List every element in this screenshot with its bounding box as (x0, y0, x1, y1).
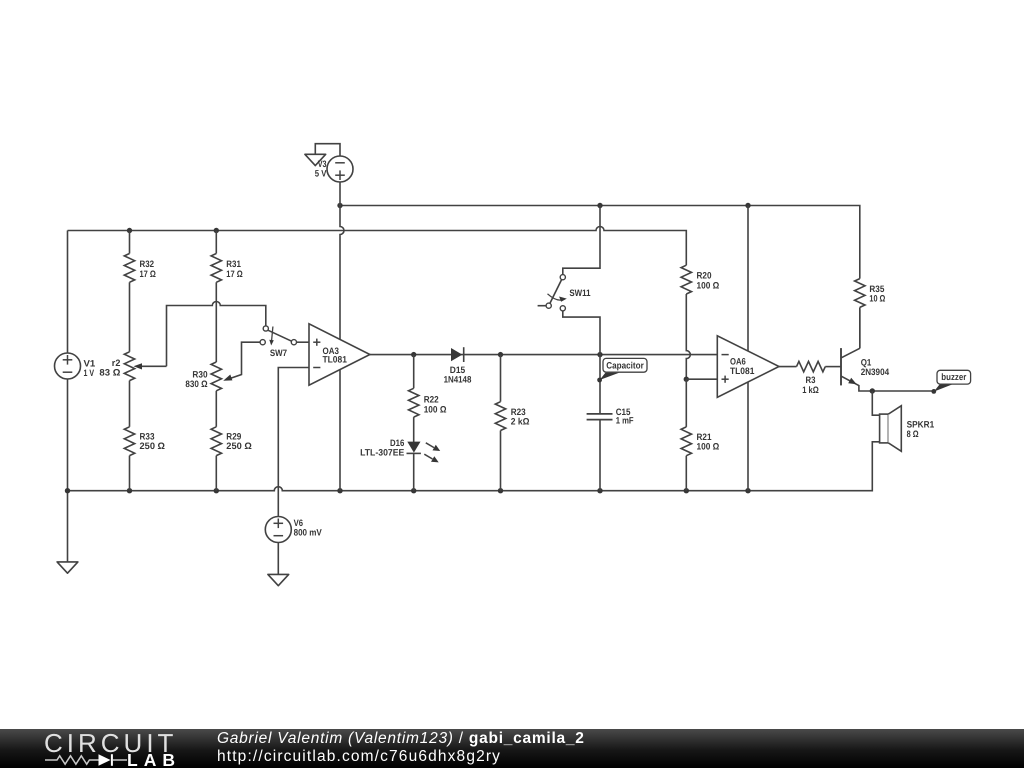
node ground rail/R29 (214, 488, 219, 493)
CircuitLab logo text LAB (127, 750, 181, 768)
svg-text:R20: R20 (697, 271, 712, 281)
wire R30 to R29 (215, 391, 217, 427)
svg-text:100 Ω: 100 Ω (697, 280, 720, 290)
CircuitLab logo resistor-diode symbol (45, 754, 127, 766)
svg-text:R29: R29 (226, 431, 241, 441)
node output/R22 (411, 352, 416, 357)
node ground rail/R21 (684, 488, 689, 493)
node rail/R31 (214, 228, 219, 233)
ground below V6 (268, 574, 289, 585)
label Q1 2N3904 (861, 357, 890, 377)
node ground rail/D16 (411, 488, 416, 493)
resistor R20 (681, 265, 691, 379)
resistor R22 (409, 355, 419, 417)
label OA3 TL081 (323, 346, 347, 365)
svg-text:R33: R33 (140, 431, 155, 441)
svg-text:100 Ω: 100 Ω (424, 404, 447, 414)
svg-text:R21: R21 (697, 432, 712, 442)
potentiometer R30 (rheostat) (211, 362, 221, 391)
label R3 1 kΩ (802, 375, 819, 395)
svg-text:5 V: 5 V (315, 168, 327, 178)
svg-text:V1: V1 (84, 358, 96, 368)
label R22 100 Ω (424, 395, 447, 415)
label R23 2 kΩ (511, 407, 530, 426)
svg-text:800 mV: 800 mV (294, 528, 323, 538)
resistor R31 (211, 231, 221, 283)
ground flag above V3 (305, 144, 340, 166)
label SW7 (270, 348, 287, 358)
svg-text:830 Ω: 830 Ω (185, 379, 208, 389)
label r2 83 Ω (99, 358, 121, 378)
node ground rail/R33 (127, 488, 132, 493)
label R32 17 Ω (140, 259, 157, 279)
wire R32 to r2 (129, 282, 131, 352)
svg-text:TL081: TL081 (730, 366, 754, 376)
footer line 2: url (217, 748, 501, 766)
svg-text:OA6: OA6 (730, 357, 746, 367)
node OA6 + input / R20 / R21 (684, 377, 689, 382)
wire r2 to R33 (129, 381, 131, 427)
wire OA6 output to R3 (779, 366, 797, 368)
label R29 250 Ω (226, 431, 252, 451)
label R21 100 Ω (697, 432, 720, 452)
node ground rail/OA6 V- (745, 488, 750, 493)
svg-text:R30: R30 (192, 369, 207, 379)
wire OA6 V- pin to ground rail (747, 382, 749, 491)
node +5V rail / OA6 V+ branch (745, 203, 750, 208)
label D16 LTL-307EE (360, 438, 404, 457)
resistor R32 (124, 231, 134, 283)
svg-text:SPKR1: SPKR1 (907, 419, 935, 429)
wire OA3 inverting input to V6 (278, 368, 309, 518)
voltage source V3 (327, 156, 353, 206)
svg-text:R35: R35 (869, 284, 884, 294)
wire node to OA6 + input (686, 378, 717, 380)
resistor R33 (124, 427, 134, 491)
LED D16 (407, 417, 441, 491)
label SPKR1 8 Ω (907, 419, 935, 439)
label R30 830 Ω (185, 369, 208, 389)
CircuitLab logo text CIRCUIT (44, 728, 177, 758)
wire r2 wiper to SW7 (hop over R31 column) (167, 302, 266, 367)
label R20 100 Ω (697, 271, 720, 291)
svg-text:17 Ω: 17 Ω (226, 269, 243, 279)
wiper arrow of r2 (134, 363, 167, 369)
svg-text:V3: V3 (318, 159, 327, 169)
wire SW7 common to OA3 + input (297, 341, 310, 343)
resistor R29 (211, 427, 221, 491)
svg-text:1 mF: 1 mF (616, 415, 634, 425)
wire V3 node down to OA3 V+ pin (hop over supply rail) (340, 206, 344, 340)
svg-text:83 Ω: 83 Ω (99, 368, 121, 378)
node output/R23 (498, 352, 503, 357)
node +5V at V3 output (337, 203, 342, 208)
svg-text:10 Ω: 10 Ω (869, 294, 885, 304)
svg-text:1 kΩ: 1 kΩ (802, 385, 819, 395)
node output/C15 branch (597, 352, 602, 357)
switch SW7 (260, 326, 296, 346)
label OA6 TL081 (730, 357, 754, 377)
svg-text:R32: R32 (140, 259, 155, 269)
resistor R21 (681, 379, 691, 491)
label V1 1 V (84, 358, 96, 378)
svg-text:TL081: TL081 (323, 354, 347, 364)
switch SW11 (538, 206, 600, 414)
svg-text:2N3904: 2N3904 (861, 367, 890, 377)
node ground rail/V1 (65, 488, 70, 493)
wire R31 to R30 (215, 282, 217, 362)
op-amp OA6 (717, 336, 779, 398)
label R35 10 Ω (869, 284, 885, 304)
footer line 1: author / title (217, 730, 585, 748)
node emitter / speaker branch (870, 388, 875, 393)
svg-text:100 Ω: 100 Ω (697, 441, 720, 451)
svg-text:SW11: SW11 (569, 288, 590, 298)
resistor R3 (797, 361, 842, 371)
svg-text:250 Ω: 250 Ω (226, 441, 252, 451)
ground below V1 (57, 562, 78, 573)
svg-text:buzzer: buzzer (941, 372, 966, 382)
svg-text:LAB: LAB (127, 750, 181, 768)
resistor R23 (495, 355, 505, 491)
wiper arrow of R30 from SW7 throw (223, 342, 260, 381)
wire OA6 V+ pin from +5V rail (747, 206, 749, 352)
wire ground rail y=490.7 (hop over V6 wire, up to speaker) (68, 442, 880, 491)
node +5V rail / SW11 branch (597, 203, 602, 208)
svg-text:SW7: SW7 (270, 348, 287, 358)
svg-text:LTL-307EE: LTL-307EE (360, 447, 404, 457)
label C15 1 mF (616, 407, 634, 426)
label V6 800 mV (294, 518, 323, 538)
svg-text:Q1: Q1 (861, 357, 872, 367)
speaker SPKR1 (872, 391, 901, 451)
wire +5V rail (V3 node to R35 top) (340, 206, 860, 279)
node ground rail/R23 (498, 488, 503, 493)
label SW11 (569, 288, 590, 298)
svg-text:2 kΩ: 2 kΩ (511, 417, 530, 427)
svg-text:250 Ω: 250 Ω (140, 441, 166, 451)
footer bar (0, 729, 1024, 768)
svg-text:1 V: 1 V (84, 368, 95, 378)
wire OA3 V- pin to ground rail (339, 370, 341, 491)
svg-text:r2: r2 (112, 358, 121, 368)
potentiometer r2 (rheostat) (124, 352, 134, 381)
svg-text:R31: R31 (226, 259, 241, 269)
svg-text:R3: R3 (806, 375, 816, 385)
flag Capacitor (597, 358, 647, 382)
voltage source V1 (55, 231, 81, 562)
svg-text:Capacitor: Capacitor (606, 360, 644, 370)
transistor Q1 2N3904 (841, 310, 934, 391)
capacitor C15 (587, 414, 613, 491)
node ground rail/OA3 V- (337, 488, 342, 493)
svg-text:R22: R22 (424, 395, 439, 405)
flag buzzer (931, 370, 970, 394)
label R33 250 Ω (140, 431, 166, 451)
svg-text:1N4148: 1N4148 (444, 374, 472, 384)
label V3 5 V (315, 159, 327, 179)
wire OA3 output row to OA6 inverting input (370, 354, 717, 356)
op-amp OA3 (309, 324, 370, 385)
diode D15 (451, 347, 464, 362)
svg-text:17 Ω: 17 Ω (140, 269, 157, 279)
wire secondary rail y=230.5 (V1 top to R20 top, hop at x=600) (68, 227, 687, 266)
svg-text:8 Ω: 8 Ω (907, 429, 919, 439)
node rail/R32 (127, 228, 132, 233)
label D15 1N4148 (444, 365, 472, 384)
resistor R35 (855, 279, 865, 349)
svg-text:V6: V6 (294, 518, 303, 528)
voltage source V6 (265, 517, 291, 575)
label R31 17 Ω (226, 259, 243, 279)
node ground rail/C15 (597, 488, 602, 493)
